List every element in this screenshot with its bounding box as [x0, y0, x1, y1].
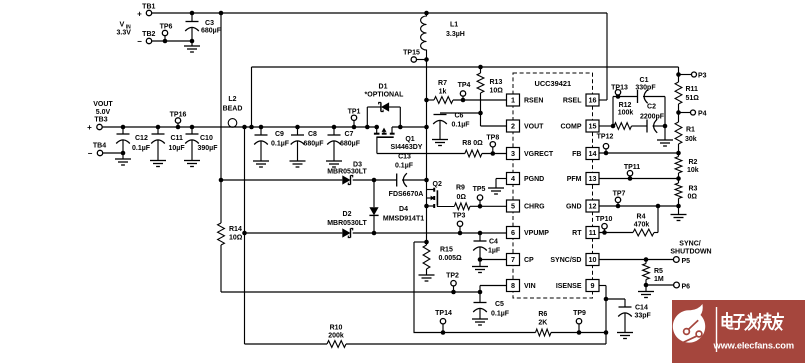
- svg-text:MMSD914T1: MMSD914T1: [383, 216, 424, 223]
- svg-text:TP16: TP16: [170, 112, 187, 119]
- svg-text:R8 0Ω: R8 0Ω: [462, 140, 483, 147]
- svg-text:C13: C13: [398, 154, 411, 161]
- svg-text:7: 7: [511, 255, 515, 264]
- svg-text:3: 3: [511, 149, 515, 158]
- svg-text:9: 9: [591, 281, 595, 290]
- svg-text:TP15: TP15: [403, 50, 420, 57]
- svg-text:D2: D2: [343, 211, 352, 218]
- svg-text:R10: R10: [330, 325, 343, 332]
- svg-text:0.1µF: 0.1µF: [452, 122, 471, 129]
- svg-text:RSEN: RSEN: [524, 98, 543, 105]
- svg-text:TP11: TP11: [624, 164, 640, 171]
- svg-text:PGND: PGND: [524, 176, 544, 183]
- svg-text:8: 8: [511, 281, 515, 290]
- svg-text:5.0V: 5.0V: [96, 109, 111, 116]
- svg-text:R3: R3: [689, 186, 698, 193]
- svg-text:3.3µH: 3.3µH: [446, 31, 465, 38]
- svg-text:GND: GND: [566, 204, 582, 211]
- svg-text:200k: 200k: [328, 333, 344, 340]
- svg-text:C6: C6: [455, 113, 464, 120]
- svg-text:SYNC/: SYNC/: [679, 241, 700, 248]
- svg-text:33pF: 33pF: [635, 313, 652, 320]
- svg-text:TP6: TP6: [160, 24, 173, 31]
- svg-text:1M: 1M: [654, 276, 664, 283]
- svg-text:D4: D4: [399, 206, 408, 213]
- svg-text:TB4: TB4: [93, 143, 106, 150]
- svg-text:100k: 100k: [618, 110, 634, 117]
- svg-text:+: +: [87, 123, 92, 132]
- svg-text:1: 1: [511, 96, 515, 105]
- svg-text:VOUT: VOUT: [524, 124, 544, 131]
- svg-text:R13: R13: [490, 79, 503, 86]
- svg-text:R6: R6: [538, 311, 547, 318]
- svg-text:2: 2: [511, 122, 515, 131]
- svg-text:R5: R5: [654, 268, 663, 275]
- svg-text:0.1µF: 0.1µF: [491, 311, 510, 318]
- svg-text:5: 5: [511, 202, 515, 211]
- svg-text:C14: C14: [635, 305, 648, 312]
- svg-text:CP: CP: [524, 257, 534, 264]
- svg-text:C7: C7: [345, 131, 354, 138]
- svg-text:D1: D1: [379, 84, 388, 91]
- svg-text:P4: P4: [698, 111, 707, 118]
- svg-text:0Ω: 0Ω: [688, 194, 698, 201]
- svg-text:C12: C12: [135, 135, 148, 142]
- svg-text:R14: R14: [229, 226, 242, 233]
- svg-text:P6: P6: [682, 284, 691, 291]
- svg-text:RT: RT: [572, 230, 582, 237]
- svg-text:D3: D3: [353, 162, 362, 169]
- svg-text:FB: FB: [572, 151, 581, 158]
- svg-text:2200pF: 2200pF: [640, 114, 665, 121]
- svg-text:SI4463DY: SI4463DY: [391, 144, 423, 151]
- svg-text:0.005Ω: 0.005Ω: [439, 255, 463, 262]
- svg-text:TP5: TP5: [473, 186, 486, 193]
- svg-text:TP10: TP10: [596, 216, 613, 223]
- svg-text:14: 14: [589, 149, 597, 158]
- svg-text:P5: P5: [682, 258, 691, 265]
- svg-text:0.1µF: 0.1µF: [395, 163, 414, 170]
- svg-text:CHRG: CHRG: [524, 204, 545, 211]
- svg-text:TP2: TP2: [446, 273, 459, 280]
- svg-text:TP8: TP8: [486, 135, 499, 142]
- svg-text:330pF: 330pF: [635, 85, 656, 92]
- svg-text:0.1µF: 0.1µF: [271, 141, 290, 148]
- svg-text:COMP: COMP: [561, 124, 582, 131]
- svg-text:TP9: TP9: [573, 310, 586, 317]
- svg-text:R15: R15: [440, 247, 453, 254]
- svg-text:P3: P3: [698, 73, 707, 80]
- svg-text:TB1: TB1: [142, 4, 155, 11]
- svg-text:MBR0530LT: MBR0530LT: [327, 220, 367, 227]
- svg-text:VPUMP: VPUMP: [524, 230, 549, 237]
- svg-text:L2: L2: [228, 96, 236, 103]
- svg-text:C8: C8: [308, 131, 317, 138]
- svg-text:−: −: [88, 149, 93, 158]
- svg-text:12: 12: [589, 202, 597, 211]
- svg-text:TB2: TB2: [142, 31, 155, 38]
- svg-text:0.1µF: 0.1µF: [132, 145, 151, 152]
- svg-text:C4: C4: [489, 239, 498, 246]
- svg-text:680µF: 680µF: [340, 141, 361, 148]
- svg-text:11: 11: [589, 228, 597, 237]
- svg-text:V: V: [120, 20, 125, 29]
- svg-text:13: 13: [589, 174, 597, 183]
- svg-text:R9: R9: [456, 185, 465, 192]
- svg-text:1k: 1k: [439, 89, 447, 96]
- svg-text:C1: C1: [640, 77, 649, 84]
- svg-text:TP3: TP3: [453, 213, 466, 220]
- svg-text:R7: R7: [438, 80, 447, 87]
- svg-text:10k: 10k: [687, 167, 699, 174]
- svg-text:0Ω: 0Ω: [457, 194, 467, 201]
- svg-text:16: 16: [589, 96, 597, 105]
- svg-text:SYNC/SD: SYNC/SD: [550, 257, 581, 264]
- svg-text:TP1: TP1: [348, 109, 361, 116]
- svg-text:TP14: TP14: [435, 310, 452, 317]
- svg-text:680µF: 680µF: [201, 28, 222, 35]
- svg-text:R4: R4: [637, 214, 646, 221]
- svg-text:TP7: TP7: [613, 191, 626, 198]
- svg-text:10Ω: 10Ω: [490, 88, 504, 95]
- svg-text:4: 4: [511, 174, 515, 183]
- svg-text:ISENSE: ISENSE: [556, 283, 582, 290]
- svg-text:VGRECT: VGRECT: [524, 151, 554, 158]
- svg-text:TB3: TB3: [94, 117, 107, 124]
- svg-text:15: 15: [589, 122, 597, 131]
- svg-text:C2: C2: [647, 104, 656, 111]
- svg-text:PFM: PFM: [567, 176, 582, 183]
- svg-text:VOUT: VOUT: [93, 101, 113, 108]
- svg-text:RSEL: RSEL: [563, 98, 582, 105]
- svg-text:10Ω: 10Ω: [229, 234, 243, 241]
- svg-text:2K: 2K: [538, 320, 547, 327]
- svg-text:390µF: 390µF: [198, 145, 219, 152]
- svg-text:TP4: TP4: [458, 82, 471, 89]
- svg-text:SHUTDOWN: SHUTDOWN: [670, 249, 711, 256]
- svg-text:Q2: Q2: [433, 181, 442, 188]
- svg-text:1µF: 1µF: [488, 248, 501, 255]
- svg-text:VIN: VIN: [524, 283, 536, 290]
- svg-text:www.elecfans.com: www.elecfans.com: [713, 341, 794, 351]
- svg-text:R11: R11: [686, 86, 699, 93]
- svg-text:470k: 470k: [634, 222, 650, 229]
- svg-text:R2: R2: [689, 159, 698, 166]
- svg-text:R12: R12: [619, 102, 632, 109]
- svg-text:680µF: 680µF: [304, 141, 325, 148]
- svg-text:C9: C9: [275, 131, 284, 138]
- svg-text:C11: C11: [171, 135, 184, 142]
- svg-text:C10: C10: [200, 135, 213, 142]
- svg-text:BEAD: BEAD: [223, 106, 243, 113]
- svg-text:UCC39421: UCC39421: [535, 79, 572, 88]
- svg-text:MBR0530LT: MBR0530LT: [327, 169, 367, 176]
- svg-text:*OPTIONAL: *OPTIONAL: [365, 92, 405, 99]
- svg-text:51Ω: 51Ω: [686, 95, 700, 102]
- svg-text:Q1: Q1: [405, 136, 414, 143]
- svg-text:6: 6: [511, 228, 515, 237]
- svg-text:10: 10: [589, 255, 597, 264]
- svg-text:R1: R1: [686, 127, 695, 134]
- svg-text:TP12: TP12: [597, 134, 614, 141]
- svg-text:C3: C3: [205, 20, 214, 27]
- svg-text:FDS6670A: FDS6670A: [389, 191, 424, 198]
- svg-text:10µF: 10µF: [169, 145, 186, 152]
- svg-text:TP13: TP13: [611, 85, 628, 92]
- svg-text:L1: L1: [450, 22, 458, 29]
- svg-text:−: −: [137, 37, 142, 46]
- svg-text:C5: C5: [495, 301, 504, 308]
- svg-text:30k: 30k: [685, 136, 697, 143]
- svg-text:+: +: [137, 10, 142, 19]
- svg-text:3.3V: 3.3V: [117, 30, 132, 37]
